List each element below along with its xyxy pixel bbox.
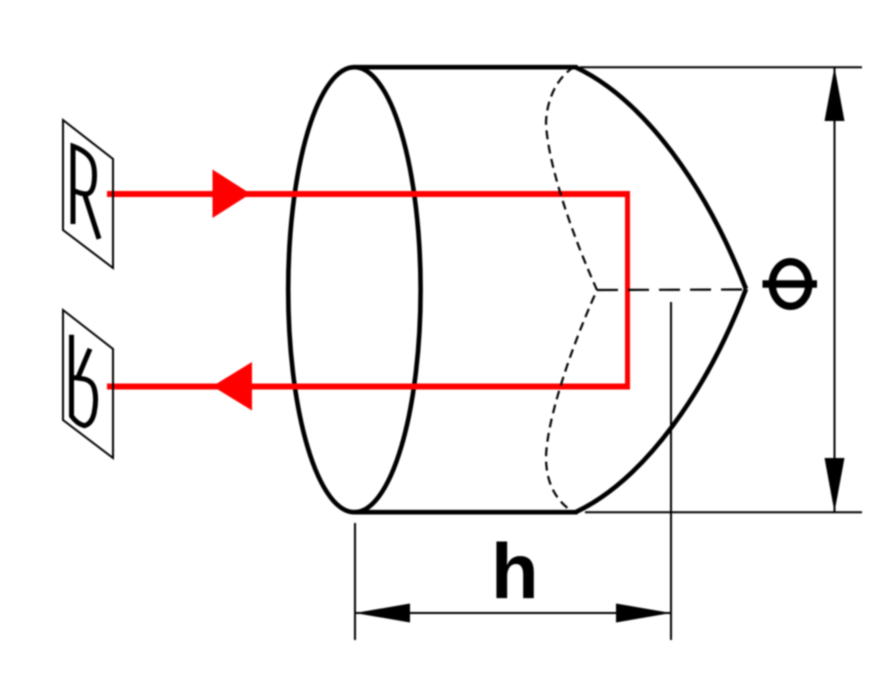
phi symbol (763, 262, 818, 307)
red beam incoming (107, 191, 630, 197)
h extension line right (670, 302, 672, 640)
diameter dimension line (834, 67, 836, 512)
extension line bottom (585, 511, 862, 513)
red beam internal vertical (625, 191, 630, 390)
letter R inverted on image card (72, 335, 96, 426)
cone silhouette lower curve (576, 289, 746, 512)
front face ellipse (288, 67, 420, 512)
hidden corner edges (dashed V) (546, 67, 597, 512)
diameter arrow bottom (825, 458, 845, 512)
h arrow left (355, 604, 410, 623)
object card R (63, 120, 113, 268)
cylinder bottom edge (354, 510, 578, 515)
h dimension line (355, 612, 671, 614)
h arrow right (616, 604, 671, 623)
image card (rotated) (63, 310, 113, 458)
cone silhouette upper curve (576, 67, 746, 289)
hidden axis edge (dashed) (597, 288, 743, 291)
red arrow outgoing (213, 362, 253, 411)
h extension line left (354, 523, 356, 640)
red arrow incoming (213, 170, 251, 219)
letter R on object card (73, 146, 99, 239)
svg-text:h: h (491, 527, 539, 615)
extension line top (580, 66, 862, 68)
diameter arrow top (825, 67, 845, 121)
cylinder top edge (354, 65, 578, 70)
red beam outgoing (107, 384, 630, 390)
